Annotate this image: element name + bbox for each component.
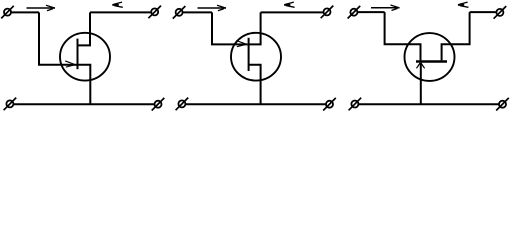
transistor Q1 envelope circle [60,33,110,81]
wire left lead drop (drain side) [385,12,421,60]
connector P6 top-right output port (circle-slash) [321,6,334,19]
connector P10 top-right output port (circle-slash) [494,6,507,19]
transistor Q2 envelope circle [231,33,281,81]
wire right lead drop (source side) [442,12,470,60]
wire drain step Q2 [249,12,261,44]
connector P1 top-left input port (circle-slash) [1,6,14,19]
gate arrow Q1 (points right into bar) [65,61,76,67]
wire bottom rail circuit 1 [13,103,154,105]
arrow output direction left [458,2,469,7]
wire top-right to output [470,11,497,13]
arrow output direction left [284,2,295,7]
connector P9 top-left input port (circle-slash) [348,6,361,19]
wire input top-left [183,11,213,13]
wire source step and drop Q2 [249,65,261,105]
connector P11 bottom-left common port (circle-slash) [349,98,362,111]
arrow input direction right [371,5,400,11]
connector P8 bottom-right common port (circle-slash) [323,98,336,111]
connector P4 bottom-right common port (circle-slash) [152,98,165,111]
wire top-right to output [90,11,151,13]
wire drain step Q1 [78,12,91,45]
wire input top-left [357,11,384,13]
wire bottom rail circuit 2 [185,103,326,105]
wire gate drop [39,12,68,64]
arrow output direction left [112,2,123,7]
connector P12 bottom-right common port (circle-slash) [496,98,509,111]
connector P2 top-right output port (circle-slash) [148,6,161,19]
connector P7 bottom-left common port (circle-slash) [176,98,189,111]
transistor Q3 envelope circle [405,33,455,81]
connector P5 top-left input port (circle-slash) [173,6,186,19]
wire source drop Q1 [78,65,91,104]
wire input top-left [11,11,39,13]
wire top-right to output [261,11,324,13]
arrow input direction right [198,5,227,11]
transistor Q1 channel bar [77,39,79,70]
arrow input direction right [27,5,56,11]
transistor Q2 channel bar [248,38,250,71]
transistor Q3 channel bar (horizontal) [416,60,447,63]
gate arrow Q3 (points up into bar) [417,63,425,68]
wire gate drop to rail [420,63,422,104]
wire gate drop [212,12,239,44]
gate arrow Q2 (points right into bar at drain level) [236,41,247,47]
connector P3 bottom-left common port (circle-slash) [4,98,17,111]
wire bottom rail circuit 3 [358,103,499,105]
